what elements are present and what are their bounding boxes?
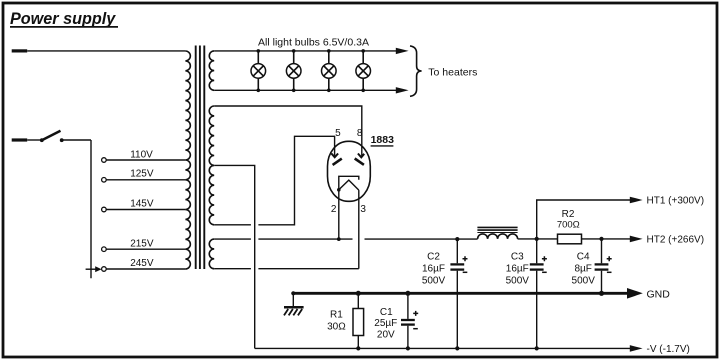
anode plate (right) [355, 159, 364, 165]
svg-text:C3: C3 [511, 251, 524, 262]
svg-text:R2: R2 [562, 209, 575, 220]
C1 polarity + [413, 311, 418, 316]
lamp DL2 (bulb) [292, 49, 296, 53]
junction dot GND left [291, 291, 295, 295]
wire: tap 245V to primary [106, 268, 185, 270]
junction dot C1 bottom [406, 346, 410, 350]
-V rail [255, 347, 631, 349]
capacitor C4 [601, 239, 603, 263]
svg-text:C2: C2 [427, 251, 440, 262]
C3 polarity - [542, 271, 547, 273]
transformer T1 primary winding [185, 51, 190, 269]
tap terminal 245V [102, 267, 107, 272]
wire: tap 110V to primary [106, 159, 185, 161]
wire: HV top to pin 8 riser [214, 106, 362, 156]
svg-text:8: 8 [357, 128, 363, 139]
svg-text:R1: R1 [330, 309, 343, 320]
svg-text:500V: 500V [506, 275, 530, 286]
svg-text:3: 3 [360, 204, 366, 215]
capacitor C3 [536, 239, 538, 263]
svg-text:8µF: 8µF [574, 263, 591, 274]
svg-text:HT1 (+300V): HT1 (+300V) [647, 196, 705, 207]
svg-text:All light bulbs 6.5V/0.3A: All light bulbs 6.5V/0.3A [258, 36, 369, 48]
junction dot bottom of DL3 [327, 89, 331, 93]
wire: choke to HT1/R2 node [518, 238, 558, 240]
svg-text:2: 2 [331, 204, 337, 215]
wire: HV bottom riser to pin 5 (with hop over center-tap drop) [214, 136, 334, 225]
svg-text:16µF: 16µF [506, 263, 529, 274]
wire: heater bottom bus [214, 89, 396, 91]
choke L1 winding [478, 234, 518, 239]
svg-text:215V: 215V [130, 238, 154, 249]
GND bus [293, 292, 628, 295]
lamp DL1 (bulb) [257, 49, 261, 53]
resistor R1 [357, 293, 359, 308]
C1 polarity - [413, 328, 418, 330]
junction dot C2 top [455, 237, 459, 241]
arrow to heaters (bottom) [396, 87, 409, 93]
tap terminal 145V [102, 207, 107, 212]
wire: tap 125V to primary [106, 179, 185, 181]
svg-text:700Ω: 700Ω [557, 219, 580, 230]
svg-text:-V (-1.7V): -V (-1.7V) [647, 344, 690, 355]
wire: R2 to HT2 [582, 238, 631, 240]
arrow GND [627, 288, 643, 299]
svg-text:C4: C4 [577, 251, 590, 262]
junction dot R2/C4 [599, 237, 603, 241]
junction dot C4 bottom [599, 291, 604, 296]
junction dot R1 top [356, 291, 361, 296]
lamp DL3 (bulb) [327, 49, 331, 53]
lamp DL4 (bulb) [361, 49, 365, 53]
anode plate (left) [333, 159, 342, 165]
HV secondary winding [209, 106, 214, 225]
svg-text:125V: 125V [130, 169, 154, 180]
svg-text:C1: C1 [380, 307, 393, 318]
C3 polarity + [542, 256, 547, 261]
junction dot pin2/filament [337, 188, 341, 192]
wire: filament top / HT rail (hop over pin-3 wire) [214, 238, 477, 240]
svg-text:To heaters: To heaters [428, 66, 477, 78]
pin 8 hook (anode lead) [358, 154, 364, 158]
junction dot pin2 on rail [337, 237, 341, 241]
wire: tap 145V to primary [106, 209, 185, 211]
pin 2 wire [338, 190, 340, 239]
terminal stub bottom-left (line input N) [12, 138, 28, 141]
svg-text:25µF: 25µF [374, 318, 397, 329]
capacitor C1 [407, 293, 409, 319]
svg-text:16µF: 16µF [422, 263, 445, 274]
C2 polarity - [463, 271, 468, 273]
svg-text:245V: 245V [130, 258, 154, 269]
wire: node up to HT1 [537, 200, 631, 239]
svg-text:500V: 500V [422, 275, 446, 286]
wire: voltage selector vertical [90, 140, 92, 278]
tap terminal 125V [102, 178, 107, 183]
junction dot choke/C3/HT1 [535, 237, 539, 241]
tap terminal 215V [102, 247, 107, 252]
wire: top terminal to primary top [27, 50, 185, 52]
junction dot R1 bottom [356, 346, 360, 350]
tube V1 envelope [328, 141, 371, 201]
earth ground symbol [292, 293, 294, 307]
wire: heater top bus [214, 50, 396, 52]
filament support bracket [339, 176, 359, 190]
junction dot bottom of DL1 [257, 89, 261, 93]
svg-text:1883: 1883 [371, 134, 395, 146]
tap terminal 110V [102, 158, 107, 163]
arrow HT1 [630, 197, 643, 204]
choke L1 core [477, 226, 517, 228]
C2 polarity + [463, 256, 468, 261]
svg-text:HT2 (+266V): HT2 (+266V) [647, 235, 705, 246]
selector tick + arrow pointing at 245V tap [86, 268, 96, 270]
svg-text:110V: 110V [130, 149, 153, 160]
junction dot C1 top [405, 291, 410, 296]
wire: switch to selector drop [62, 139, 91, 141]
svg-text:5: 5 [335, 128, 341, 139]
arrow HT2 [630, 236, 643, 243]
svg-text:500V: 500V [572, 275, 596, 286]
transformer core [195, 46, 197, 270]
resistor R2 [558, 234, 582, 244]
arrow to heaters (top) [396, 48, 409, 54]
capacitor C2 [456, 239, 458, 263]
arrow -V [630, 345, 643, 352]
junction dot C3 bottom [535, 346, 539, 350]
terminal stub top-left (line input L) [12, 49, 28, 52]
pin 3 wire [358, 190, 360, 269]
heater secondary winding 6.5V [209, 51, 214, 90]
wire: tap 215V to primary [106, 248, 185, 250]
pin 5 hook (anode lead) [331, 153, 338, 157]
wire: terminal to switch [27, 139, 42, 141]
C4 polarity - [607, 271, 612, 273]
switch S1 (open blade) [40, 138, 44, 142]
svg-text:20V: 20V [377, 329, 395, 340]
junction dot C2 bottom [455, 346, 459, 350]
junction dot bottom of DL2 [292, 89, 296, 93]
wire: filament bottom to pin 3 [214, 268, 359, 270]
junction dot bottom of DL4 [361, 89, 365, 93]
wire: HV center tap to -V rail [214, 165, 255, 348]
curly brace to heaters [410, 46, 422, 96]
filament secondary winding [209, 239, 214, 269]
filament (directly heated cathode) [339, 180, 359, 190]
svg-text:Power supply: Power supply [10, 10, 116, 28]
C4 polarity + [607, 256, 612, 261]
svg-text:145V: 145V [130, 198, 154, 209]
svg-text:30Ω: 30Ω [327, 322, 346, 333]
svg-text:GND: GND [647, 288, 671, 300]
